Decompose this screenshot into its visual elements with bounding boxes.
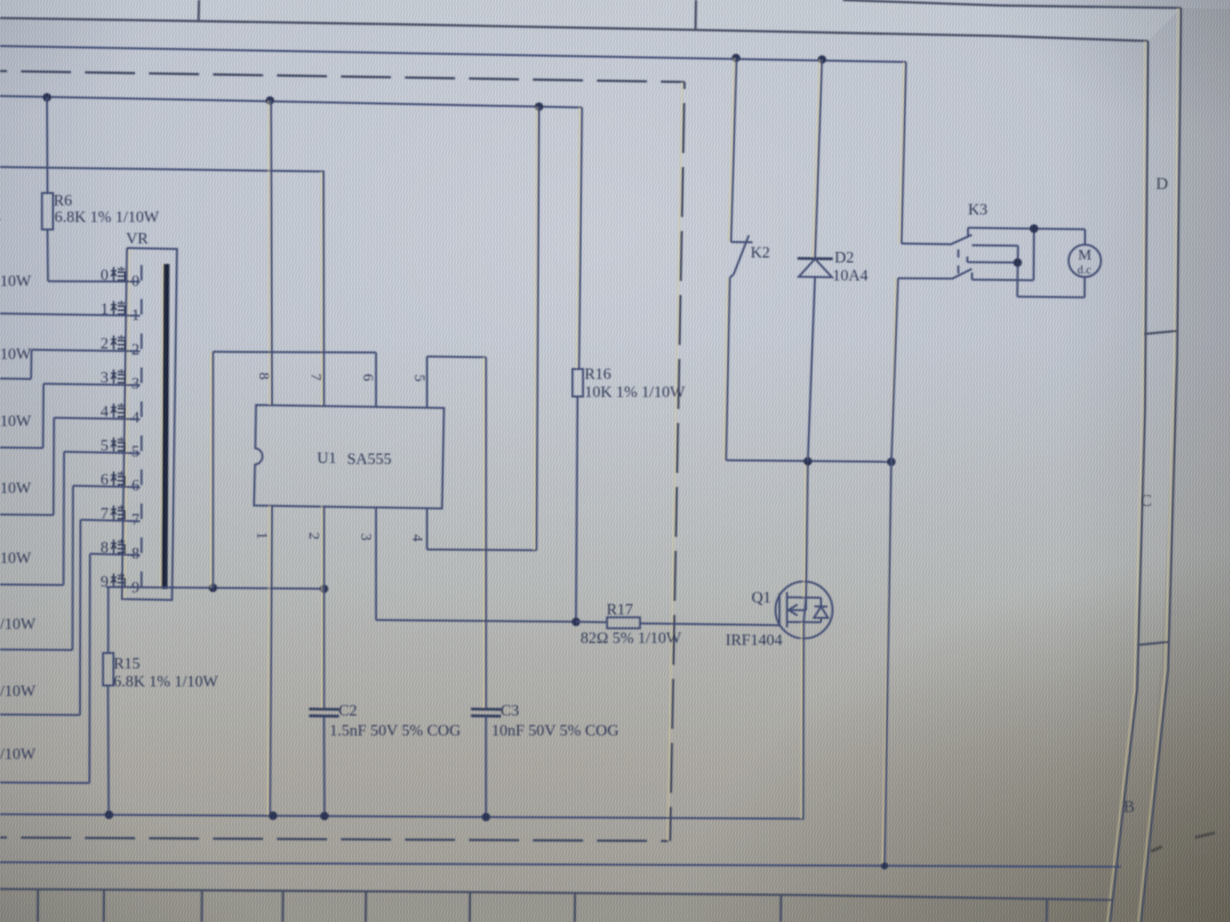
pin 5 wire bbox=[427, 357, 486, 409]
value fragment 10W y359 bbox=[0, 346, 32, 363]
wire tap4 bbox=[0, 418, 140, 515]
resistor R17 bbox=[576, 617, 780, 628]
node R16-pin3 bbox=[572, 618, 581, 627]
label D2 bbox=[835, 250, 855, 267]
pin number 6 bbox=[360, 374, 376, 382]
wire Q1 drain bbox=[804, 461, 808, 597]
zone tick top 2 bbox=[694, 0, 697, 30]
wire K2/D2 bottom bbox=[726, 460, 891, 462]
node wiper-pin2 bbox=[320, 585, 329, 594]
VR pin number 1 bbox=[132, 307, 140, 324]
node supply-D2 bbox=[818, 55, 827, 64]
VR pin 2 stub bbox=[141, 334, 143, 350]
pin number 2 bbox=[306, 532, 322, 540]
value 10A4 bbox=[833, 268, 869, 285]
VR pin 1 stub bbox=[141, 299, 143, 315]
wire motor return rail bbox=[0, 862, 1121, 867]
dashed box right edge bbox=[668, 82, 685, 841]
value fragment 10W y493 bbox=[0, 480, 32, 497]
VR pin 5 stub bbox=[141, 436, 143, 452]
wire tap3 bbox=[0, 384, 140, 448]
wire motor supply net bbox=[0, 46, 906, 62]
zone ticks bottom bbox=[38, 890, 1047, 922]
label R6 bbox=[54, 193, 73, 210]
label 4dang bbox=[101, 403, 125, 420]
label K2 bbox=[751, 245, 771, 262]
speck 1 bbox=[1151, 847, 1162, 852]
node supply-K2 bbox=[732, 54, 741, 63]
node K2D2-pole2 bbox=[887, 458, 896, 467]
sheet inner border right bbox=[1107, 41, 1148, 922]
wire pin5 to C3 column bbox=[484, 357, 486, 709]
wire tap1 bbox=[0, 314, 140, 316]
label C3 bbox=[501, 703, 520, 720]
value fragment /10W y629 bbox=[0, 616, 36, 633]
pin number 1 bbox=[254, 532, 270, 540]
zone tick right C/B bbox=[1137, 642, 1168, 645]
label 7dang bbox=[101, 505, 125, 522]
wire tap8 bbox=[0, 554, 140, 783]
VR pin 8 stub bbox=[141, 538, 143, 554]
dashed box bottom edge bbox=[0, 838, 668, 842]
pin 1 wire bbox=[268, 506, 272, 816]
pin 4 wire bbox=[427, 107, 539, 551]
VR pin 7 stub bbox=[141, 504, 143, 520]
node rail-pin4 bbox=[535, 102, 544, 111]
label 2dang bbox=[101, 335, 125, 352]
label R15 bbox=[114, 656, 141, 673]
label 3dang bbox=[101, 369, 125, 386]
label 5dang bbox=[101, 437, 125, 454]
sheet outer border right bbox=[1138, 8, 1181, 922]
speck 2 bbox=[1195, 833, 1215, 838]
value R6 6.8K 1% 1/10W bbox=[55, 209, 160, 226]
value fragment /10W y759 bbox=[0, 746, 36, 763]
node return-pole2 bbox=[881, 862, 888, 869]
label 6dang bbox=[101, 471, 125, 488]
wire VCC top rail bbox=[0, 96, 582, 108]
wire tap7 bbox=[0, 520, 140, 715]
diode D2 bbox=[798, 60, 833, 462]
pin 2 wire / C2 column bbox=[322, 506, 325, 817]
node rail-R6 bbox=[43, 93, 52, 102]
wire K3 pole2 column bbox=[882, 278, 898, 866]
resistor R15 bbox=[103, 588, 114, 815]
VR pin number 4 bbox=[132, 410, 140, 427]
label fragment T1 bbox=[0, 207, 2, 224]
node drain junction bbox=[804, 457, 813, 466]
VR pin number 6 bbox=[132, 478, 140, 495]
label 0dang bbox=[101, 267, 125, 284]
op-amp U1 body bbox=[254, 405, 444, 509]
resistor R16 bbox=[573, 108, 584, 622]
value C3 bbox=[492, 723, 620, 740]
value IRF1404 bbox=[726, 632, 783, 649]
label K3 bbox=[968, 202, 988, 219]
capacitor C2 bbox=[309, 709, 339, 716]
node gnd-R15 bbox=[105, 811, 114, 820]
switch VR body bbox=[122, 248, 177, 600]
label Q1 bbox=[752, 590, 772, 607]
VR pin number 0 bbox=[132, 273, 140, 290]
pin 8 wire bbox=[269, 101, 272, 406]
label R16 bbox=[585, 366, 612, 383]
label R17 bbox=[607, 602, 634, 619]
value C2 bbox=[330, 723, 462, 740]
zone letter B bbox=[1123, 797, 1134, 816]
wire tap0 bbox=[48, 280, 140, 282]
pin 7 wire bbox=[0, 0, 1, 1]
pin number 7 bbox=[308, 373, 324, 381]
switch K2 bbox=[724, 58, 753, 460]
pin 3 wire bbox=[376, 509, 576, 622]
sheet outer border top bbox=[843, 0, 1181, 8]
VR pin number 2 bbox=[132, 342, 140, 359]
VR pin 0 stub bbox=[141, 265, 143, 281]
VR pin number 9 bbox=[132, 580, 140, 597]
pin number 5 bbox=[411, 374, 427, 382]
wire tap2 bbox=[0, 350, 140, 379]
value fragment 10W y286 bbox=[0, 273, 32, 290]
node gnd-pin1 bbox=[269, 811, 278, 820]
pin 6 wire bbox=[211, 352, 376, 588]
sheet inner border top bbox=[0, 18, 1148, 41]
node K3 mid bbox=[1013, 258, 1022, 267]
wire wiper output row bbox=[106, 587, 324, 589]
switch VR wiper bar bbox=[161, 264, 167, 589]
VR pin 6 stub bbox=[141, 470, 143, 486]
zone letter D bbox=[1156, 174, 1168, 193]
label 8dang bbox=[101, 539, 125, 556]
VR pin number 8 bbox=[132, 546, 140, 563]
VR pin number 7 bbox=[132, 512, 140, 529]
value R15 6.8K 1% 1/10W bbox=[114, 674, 219, 691]
zone tick top 1 bbox=[197, 0, 200, 21]
label U1 SA555 bbox=[317, 450, 391, 468]
node gnd-C2 bbox=[320, 812, 329, 821]
pin number 8 bbox=[256, 372, 272, 380]
VR pin 4 stub bbox=[141, 402, 143, 418]
node rail-pin8 bbox=[266, 96, 275, 105]
value R17 82ohm bbox=[581, 630, 683, 647]
wire Q1 source bbox=[800, 622, 803, 819]
sheet inner border bottom bbox=[0, 889, 1113, 900]
label 1dang bbox=[101, 301, 125, 318]
resistor R6 bbox=[42, 97, 53, 281]
label VR bbox=[126, 231, 149, 248]
wire tap6 bbox=[0, 486, 140, 650]
motor M d.c. bbox=[1069, 229, 1101, 297]
VR pin number 3 bbox=[132, 376, 140, 393]
relay K3 contacts bbox=[898, 228, 1085, 298]
node wiper-pin6 bbox=[209, 584, 218, 593]
zone tick right D/C bbox=[1144, 331, 1176, 334]
wire pin7 net bbox=[0, 167, 324, 406]
label C2 bbox=[339, 703, 358, 720]
VR pin 9 stub bbox=[141, 572, 143, 588]
pin number 4 bbox=[409, 534, 425, 542]
value fragment 10W y563 bbox=[0, 550, 32, 567]
capacitor C3 bbox=[471, 709, 501, 818]
value R16 10K 1% 1/10W bbox=[585, 384, 686, 401]
wire ground rail bbox=[0, 622, 804, 819]
wire supply to K3 pole1 bbox=[899, 62, 906, 244]
VR pin number 5 bbox=[132, 444, 140, 461]
node gnd-C3 bbox=[482, 813, 491, 822]
value fragment 10W y426 bbox=[0, 413, 32, 430]
transistor Q1 body bbox=[776, 582, 833, 639]
node K3 top bbox=[1030, 224, 1039, 233]
VR pin 3 stub bbox=[141, 368, 143, 384]
zone letter C bbox=[1140, 491, 1151, 510]
pin number 3 bbox=[358, 533, 374, 541]
dashed box top edge bbox=[0, 71, 685, 82]
label 9dang bbox=[101, 573, 125, 590]
value fragment /10W y696 bbox=[0, 683, 36, 700]
wire tap5 bbox=[0, 452, 140, 585]
